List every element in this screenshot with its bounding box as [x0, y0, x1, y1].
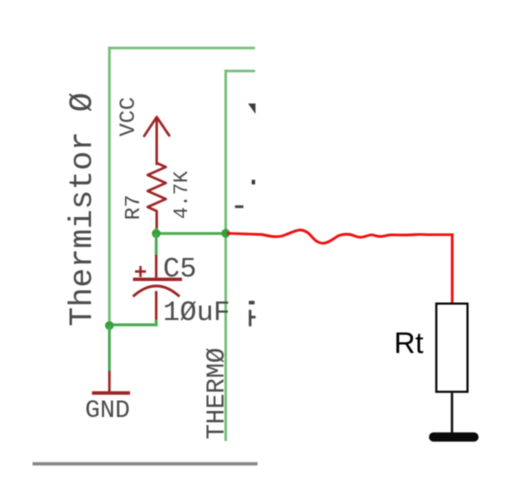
wire C5 bottom to node C [109, 320, 156, 325]
cropped glyph dash [235, 205, 243, 208]
svg-text:Thermistor Ø: Thermistor Ø [64, 92, 101, 326]
svg-text:R7: R7 [123, 195, 146, 220]
svg-text:THERMØ: THERMØ [203, 348, 232, 440]
svg-text:GND: GND [85, 396, 130, 425]
wire R7 to node A [155, 228, 158, 234]
node C junction [105, 321, 114, 330]
svg-text:VCC: VCC [116, 97, 141, 137]
resistor Rt body [436, 304, 467, 392]
wire node C down to GND [108, 326, 111, 372]
svg-text:C5: C5 [163, 255, 197, 286]
cropped glyph fragment top [248, 104, 256, 115]
cropped glyph dash2 [249, 301, 255, 305]
svg-text:1ØuF: 1ØuF [163, 298, 230, 329]
capacitor C5 top plate [133, 278, 182, 281]
separator gray line [33, 462, 258, 465]
wire Rt bottom lead [451, 393, 453, 433]
wire node A to node B [156, 232, 226, 235]
wire inner-L top [225, 70, 256, 73]
svg-text:4.7K: 4.7K [171, 171, 194, 219]
wire outer-L left vertical [108, 47, 111, 325]
capacitor C5 plus sign [135, 266, 146, 277]
cropped glyph dot [252, 180, 255, 185]
wire node A down to C5 [155, 234, 158, 257]
ground bar annotation [434, 432, 475, 441]
capacitor C5 curved plate [133, 286, 180, 297]
ground GND lead [108, 371, 111, 392]
capacitor C5 top lead [155, 255, 158, 278]
ground GND bar [92, 391, 130, 395]
node B junction [221, 229, 230, 238]
wire outer-L top [108, 47, 255, 50]
node A junction [152, 229, 161, 238]
resistor R7 zigzag [148, 163, 166, 230]
power symbol VCC arrow [144, 117, 169, 164]
svg-text:Rt: Rt [394, 327, 424, 360]
wire inner-L vertical THERM0 net [224, 70, 227, 441]
wire red annotation squiggle [227, 230, 452, 303]
cropped glyph stem [249, 310, 252, 327]
cropped glyph tick [251, 316, 256, 319]
capacitor C5 bottom lead [155, 291, 158, 321]
